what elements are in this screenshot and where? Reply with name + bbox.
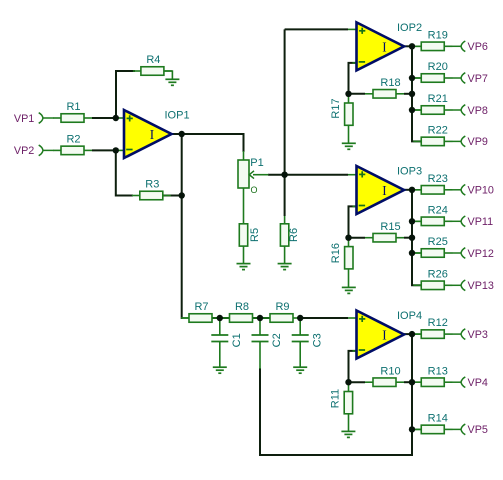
svg-text:VP2: VP2: [14, 145, 34, 157]
resistor R4: [133, 54, 172, 75]
svg-text:R24: R24: [428, 204, 448, 216]
port VP2: [14, 145, 54, 157]
junction R13 tap: [409, 379, 415, 385]
svg-text:R19: R19: [428, 29, 448, 41]
wire R16 to ground: [348, 269, 350, 287]
wire IOP1 output to P1 top: [171, 134, 244, 152]
resistor R2: [53, 134, 92, 155]
junction R19 tap: [409, 43, 415, 49]
svg-text:VP12: VP12: [468, 248, 494, 260]
svg-text:VP10: VP10: [468, 185, 494, 197]
junction wiper node: [281, 172, 287, 178]
resistor R9: [262, 301, 301, 322]
wire stub IOP2 -: [353, 62, 358, 64]
wire IOP1 output down to R7 row: [181, 134, 184, 318]
svg-text:R14: R14: [428, 413, 448, 425]
svg-text:C1: C1: [231, 333, 243, 347]
junction R8-R9-C2: [257, 315, 263, 321]
wire IOP2 output: [404, 45, 412, 47]
svg-text:R3: R3: [145, 179, 159, 191]
resistor R21: [413, 93, 452, 114]
op-amp IOP4: [356, 310, 423, 359]
svg-text:R4: R4: [146, 54, 160, 66]
svg-text:R22: R22: [428, 125, 448, 137]
resistor R16: [330, 243, 353, 269]
svg-text:R1: R1: [66, 101, 80, 113]
ground R6: [278, 264, 292, 270]
port VP11: [452, 216, 493, 228]
wire C1 to ground: [219, 342, 221, 368]
svg-text:VP13: VP13: [468, 280, 494, 292]
junction IOP4 feedback: [345, 379, 351, 385]
svg-text:I: I: [150, 127, 154, 142]
resistor R22: [413, 125, 452, 146]
op-amp IOP1: [123, 110, 190, 159]
resistor R15: [365, 221, 404, 242]
wire node B to IOP3 + input: [285, 174, 348, 176]
wire into R7: [182, 317, 190, 319]
svg-text:IOP4: IOP4: [397, 310, 422, 322]
svg-text:R13: R13: [428, 365, 448, 377]
port VP1: [14, 113, 54, 125]
junction R24 tap: [409, 218, 415, 224]
ground C1: [213, 367, 227, 373]
op-amp IOP2: [356, 22, 423, 71]
svg-text:C3: C3: [311, 333, 323, 347]
wire R4 to ground: [164, 71, 172, 79]
resistor R8: [222, 301, 261, 322]
capacitor C1: [211, 333, 243, 347]
wire IOP3 - to feedback node: [349, 206, 358, 237]
svg-text:VP7: VP7: [468, 73, 488, 85]
resistor R3: [132, 179, 171, 200]
svg-text:O: O: [251, 185, 258, 195]
wire IOP4 output: [404, 333, 412, 335]
port VP9: [452, 136, 488, 148]
wire R7 to R8: [212, 317, 230, 319]
svg-text:R21: R21: [428, 93, 448, 105]
wire IOP4 output column and bottom rail to C2: [260, 334, 412, 455]
wire stub IOP1 -: [116, 149, 128, 151]
port VP8: [452, 105, 488, 117]
resistor R12: [413, 317, 452, 338]
wire node B vertical: [284, 29, 286, 216]
wire R2 to IOP1 - input: [92, 149, 116, 151]
resistor R1: [53, 101, 92, 122]
svg-text:R18: R18: [380, 77, 400, 89]
port VP3: [452, 329, 488, 341]
wire into C2: [259, 318, 261, 335]
wire R6 to ground: [284, 246, 286, 264]
resistor R18: [365, 77, 404, 98]
ground R16: [342, 287, 356, 293]
wire IOP3 output: [404, 189, 412, 191]
wire into C3: [299, 318, 301, 335]
resistor R6: [280, 224, 300, 246]
port VP12: [452, 248, 494, 260]
junction R21 tap: [409, 107, 415, 113]
wire R3 to feedback node: [163, 195, 182, 197]
port VP4: [452, 377, 488, 389]
svg-text:IOP3: IOP3: [397, 166, 422, 178]
capacitor C2: [252, 333, 284, 347]
resistor R23: [413, 173, 452, 194]
svg-text:R26: R26: [428, 268, 448, 280]
svg-text:R6: R6: [288, 228, 300, 242]
resistor R7: [181, 301, 220, 322]
svg-text:R2: R2: [66, 134, 80, 146]
svg-text:P1: P1: [250, 157, 263, 169]
resistor R5: [239, 224, 261, 246]
wire tap: [412, 220, 422, 222]
junction R3 feedback: [179, 192, 185, 198]
port VP13: [452, 280, 494, 292]
wire to IOP2 + input: [285, 28, 348, 30]
wire P1 bottom to R5: [243, 188, 245, 224]
svg-text:I: I: [382, 39, 386, 54]
port VP10: [452, 185, 494, 197]
junction R15 tap: [409, 235, 415, 241]
ground R11: [341, 431, 355, 437]
svg-text:IOP1: IOP1: [165, 110, 190, 122]
wire R11 to ground: [348, 414, 350, 432]
svg-text:R5: R5: [249, 228, 261, 242]
wire stub IOP4 +: [348, 317, 357, 319]
wire stub IOP2 +: [348, 28, 357, 30]
svg-text:R8: R8: [235, 301, 249, 313]
wire R5 to ground: [243, 246, 245, 264]
wire tap: [412, 77, 422, 79]
resistor R24: [413, 204, 452, 225]
resistor R19: [413, 29, 452, 50]
port VP6: [452, 41, 488, 53]
svg-text:R12: R12: [428, 317, 448, 329]
wire tap: [412, 109, 422, 111]
wire R9 to IOP4 + input: [301, 317, 348, 319]
wire stub IOP3 +: [348, 174, 357, 176]
resistor R17: [330, 98, 353, 125]
port VP5: [452, 424, 488, 436]
wire tap: [412, 428, 422, 430]
wire R15 to output column: [404, 237, 412, 239]
wire into R16: [348, 238, 350, 247]
wire R4 to noninverting node: [116, 71, 135, 118]
svg-text:VP1: VP1: [14, 113, 34, 125]
wire feedback node to R15: [349, 237, 366, 239]
wire tap: [412, 252, 422, 254]
wire feedback node to R10: [349, 381, 366, 383]
svg-text:R20: R20: [428, 61, 448, 73]
wire wiper to node B: [268, 174, 285, 176]
wire IOP2 output column: [412, 46, 421, 141]
junction noninverting node IOP1: [113, 115, 119, 121]
resistor R25: [413, 236, 452, 257]
svg-text:C2: C2: [271, 333, 283, 347]
svg-text:R11: R11: [329, 389, 341, 408]
ground R5: [237, 264, 251, 270]
svg-text:VP8: VP8: [468, 105, 488, 117]
junction R18 tap: [409, 91, 415, 97]
junction R9-C3-IOP4: [297, 315, 303, 321]
junction R7-R8-C1: [217, 315, 223, 321]
wire C3 to ground: [299, 342, 301, 368]
capacitor C3: [292, 333, 324, 347]
wire into R11: [348, 382, 350, 391]
svg-text:R16: R16: [330, 243, 342, 263]
svg-text:VP3: VP3: [468, 329, 488, 341]
wire C2 lower plate: [259, 342, 261, 370]
wire inverting node to R3: [116, 150, 133, 195]
wire IOP3 output column: [412, 190, 421, 285]
svg-text:VP4: VP4: [468, 377, 488, 389]
svg-text:R10: R10: [380, 365, 400, 377]
wire tap: [412, 45, 422, 47]
wire IOP4 - to feedback node: [349, 351, 358, 382]
wire feedback node to R18: [349, 93, 366, 95]
resistor R13: [413, 365, 452, 386]
wire tap: [412, 189, 422, 191]
wire into P1 top: [243, 151, 245, 161]
svg-text:R15: R15: [380, 221, 400, 233]
wire tap: [412, 333, 422, 335]
port VP7: [452, 73, 488, 85]
svg-text:VP9: VP9: [468, 136, 488, 148]
junction R14 tap: [409, 426, 415, 432]
junction IOP3 feedback: [345, 235, 351, 241]
svg-text:R25: R25: [428, 236, 448, 248]
junction R23 tap: [409, 187, 415, 193]
resistor R11: [329, 389, 352, 414]
svg-text:R9: R9: [275, 301, 289, 313]
wire R8 to R9: [253, 317, 271, 319]
wire IOP2 - to feedback node: [349, 63, 358, 94]
wire into C1: [219, 318, 221, 335]
junction R20 tap: [409, 75, 415, 81]
svg-text:VP11: VP11: [468, 216, 494, 228]
svg-text:R17: R17: [330, 98, 342, 118]
junction IOP1 output: [179, 131, 185, 137]
wire stub IOP1 +: [116, 117, 128, 119]
junction IOP2 feedback: [345, 91, 351, 97]
wire stub IOP3 -: [353, 205, 358, 207]
junction R25 tap: [409, 250, 415, 256]
resistor R10: [365, 365, 404, 386]
wire into R17: [348, 94, 350, 103]
resistor R26: [413, 268, 452, 289]
potentiometer P1: [238, 157, 269, 188]
junction R12 tap: [409, 331, 415, 337]
svg-text:R7: R7: [194, 301, 208, 313]
wire R17 to ground: [348, 125, 350, 143]
svg-text:I: I: [382, 183, 386, 198]
wire tap: [412, 381, 422, 383]
resistor R20: [413, 61, 452, 82]
wire stub IOP4 -: [353, 350, 358, 352]
ground C3: [293, 367, 307, 373]
wire into R6: [284, 216, 286, 224]
junction inverting node IOP1: [113, 147, 119, 153]
ground R4: [165, 79, 179, 85]
svg-text:IOP2: IOP2: [397, 22, 422, 34]
resistor R14: [413, 413, 452, 434]
ground R17: [342, 143, 356, 149]
svg-text:I: I: [382, 328, 386, 343]
wire R10 to output column: [404, 381, 412, 383]
svg-text:VP5: VP5: [468, 424, 488, 436]
op-amp IOP3: [356, 166, 423, 215]
svg-text:R23: R23: [428, 173, 448, 185]
wire R1 to IOP1 + input: [92, 117, 116, 119]
svg-text:VP6: VP6: [468, 41, 488, 53]
wire R18 to output column: [404, 93, 412, 95]
